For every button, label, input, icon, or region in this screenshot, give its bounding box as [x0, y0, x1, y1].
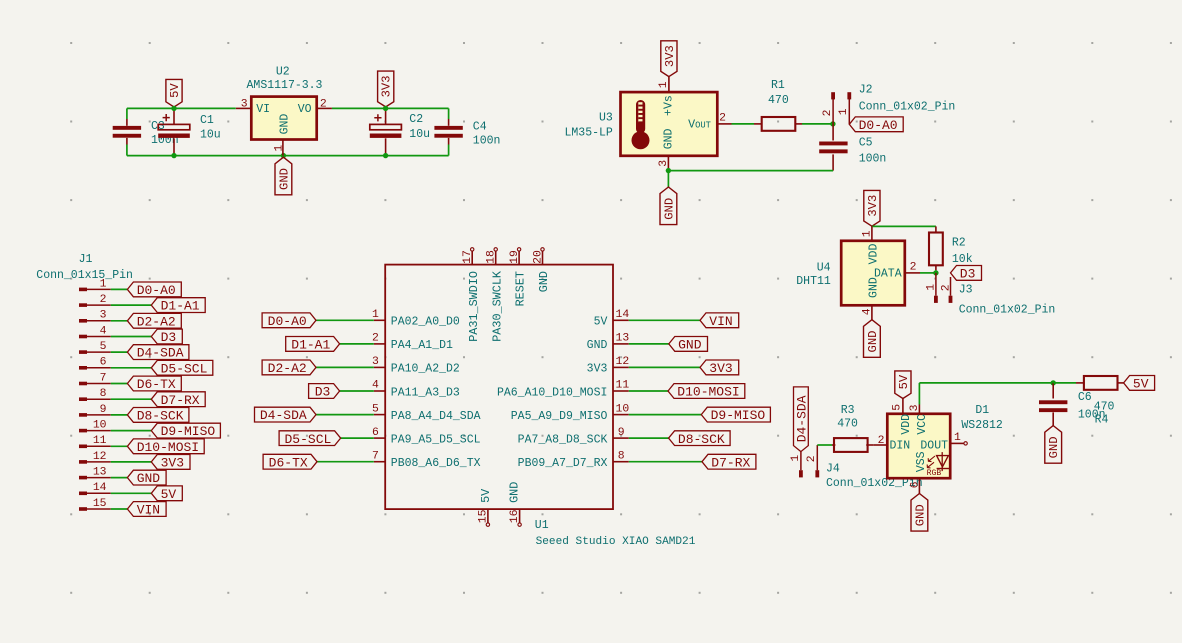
svg-text:GND: GND — [662, 128, 675, 149]
junction 3V3/C2 — [383, 106, 388, 111]
net label D9-MISO (U1 pin 10) — [701, 407, 770, 422]
svg-text:GND: GND — [587, 339, 608, 352]
net label D4-SDA (J4) — [794, 387, 809, 452]
svg-text:DHT11: DHT11 — [796, 275, 831, 288]
svg-text:PA02_A0_D0: PA02_A0_D0 — [391, 316, 460, 329]
svg-text:5: 5 — [892, 404, 904, 411]
wire C3 branch — [126, 108, 128, 119]
svg-text:5: 5 — [372, 403, 379, 415]
svg-text:Conn_01x02_Pin: Conn_01x02_Pin — [959, 304, 1056, 317]
svg-text:D1: D1 — [975, 404, 989, 417]
svg-text:3V3: 3V3 — [709, 361, 732, 376]
svg-text:2: 2 — [878, 435, 885, 447]
svg-text:10k: 10k — [952, 253, 973, 266]
net label D1-A1 (J1 pin 2) — [151, 298, 205, 313]
wire VCC rail to junction — [919, 382, 1053, 384]
resistor R3 — [832, 444, 835, 446]
svg-text:10u: 10u — [200, 128, 221, 141]
svg-text:R4: R4 — [1095, 413, 1109, 426]
svg-text:470: 470 — [768, 94, 789, 107]
svg-text:1: 1 — [100, 278, 107, 290]
svg-text:D5-SCL: D5-SCL — [284, 432, 331, 447]
svg-text:D10-MOSI: D10-MOSI — [137, 440, 199, 455]
net label D3 (U1 pin 4) — [309, 384, 340, 399]
svg-text:C2: C2 — [409, 113, 423, 126]
power 3V3 flag DHT11 — [864, 190, 880, 226]
net label D0-A0 (J2) — [849, 117, 903, 132]
svg-text:D8-SCK: D8-SCK — [678, 432, 725, 447]
pin 2 U3 Vout — [717, 123, 731, 125]
svg-text:D4-SDA: D4-SDA — [260, 408, 307, 423]
svg-text:3V3: 3V3 — [663, 45, 677, 67]
power 3V3 flag — [378, 71, 394, 107]
pins U1 right 8-14 — [613, 319, 629, 321]
svg-text:1: 1 — [658, 81, 670, 88]
ground GND flag WS2812 — [911, 494, 928, 532]
svg-text:1: 1 — [790, 455, 802, 462]
svg-text:GND: GND — [1047, 436, 1061, 458]
svg-text:2: 2 — [822, 109, 834, 116]
svg-text:4: 4 — [100, 325, 107, 337]
wire J4 to R3 — [817, 444, 832, 446]
svg-text:U2: U2 — [276, 65, 290, 78]
svg-text:PA11_A3_D3: PA11_A3_D3 — [391, 386, 460, 399]
junction U3 gnd — [666, 168, 671, 173]
pin 3 D1 VCC — [918, 405, 920, 414]
svg-text:20: 20 — [533, 250, 545, 264]
svg-text:100n: 100n — [473, 134, 501, 147]
wire VCC up — [918, 383, 920, 405]
svg-text:3: 3 — [658, 160, 670, 167]
svg-text:Seeed Studio XIAO SAMD21: Seeed Studio XIAO SAMD21 — [536, 536, 696, 548]
net label D7-RX (U1 pin 8) — [702, 454, 756, 469]
svg-text:1: 1 — [926, 284, 938, 291]
svg-text:5V: 5V — [479, 488, 493, 503]
svg-text:5: 5 — [100, 341, 107, 353]
svg-text:8: 8 — [618, 450, 625, 462]
svg-text:11: 11 — [93, 435, 107, 447]
svg-text:C6: C6 — [1078, 391, 1092, 404]
svg-text:3: 3 — [100, 310, 107, 322]
svg-text:2: 2 — [719, 113, 726, 125]
svg-text:R1: R1 — [771, 79, 785, 92]
svg-text:18: 18 — [486, 250, 498, 264]
svg-text:8: 8 — [100, 388, 107, 400]
svg-text:4: 4 — [861, 308, 873, 315]
svg-text:U1: U1 — [535, 519, 549, 532]
capacitor C3 — [126, 119, 128, 126]
svg-text:U3: U3 — [599, 111, 613, 124]
svg-text:J3: J3 — [959, 283, 973, 296]
svg-text:PA10_A2_D2: PA10_A2_D2 — [391, 363, 460, 376]
svg-text:D0-A0: D0-A0 — [268, 314, 307, 329]
svg-text:10: 10 — [616, 403, 630, 415]
svg-text:3: 3 — [372, 356, 379, 368]
svg-text:LM35-LP: LM35-LP — [564, 126, 612, 139]
net label 5V (J1 pin 14) — [151, 486, 182, 501]
svg-text:2: 2 — [941, 284, 953, 291]
svg-text:GND: GND — [508, 482, 522, 503]
svg-text:PA31_SWDIO: PA31_SWDIO — [467, 271, 481, 342]
power 3V3 flag LM35 — [661, 41, 677, 77]
svg-text:PA7_A8_D8_SCK: PA7_A8_D8_SCK — [518, 433, 608, 446]
net label D6-TX (J1 pin 7) — [127, 376, 181, 391]
svg-text:2: 2 — [806, 455, 818, 462]
svg-text:13: 13 — [616, 333, 630, 345]
svg-text:U4: U4 — [817, 261, 831, 274]
svg-text:J1: J1 — [79, 253, 93, 266]
svg-text:2: 2 — [100, 294, 107, 306]
ground GND flag U2 — [275, 157, 292, 195]
wire 3V3 to R2 — [872, 225, 936, 227]
svg-text:DIN: DIN — [890, 440, 911, 453]
svg-text:15: 15 — [478, 509, 490, 523]
svg-text:12: 12 — [616, 356, 630, 368]
pin 3 U2 VI — [236, 107, 251, 109]
svg-text:3: 3 — [241, 98, 248, 110]
svg-text:6: 6 — [909, 481, 921, 488]
svg-text:10u: 10u — [409, 128, 430, 141]
svg-text:J4: J4 — [826, 462, 840, 475]
svg-text:+Vs: +Vs — [662, 95, 675, 116]
junction C1 gnd — [171, 153, 176, 158]
svg-text:D0-A0: D0-A0 — [137, 283, 176, 298]
net label D1-A1 (U1 pin 2) — [286, 337, 340, 352]
svg-text:D1-A1: D1-A1 — [291, 338, 330, 353]
sensor U4 DHT11 — [841, 241, 905, 305]
ground GND flag DHT11 — [864, 320, 881, 358]
svg-text:6: 6 — [372, 427, 379, 439]
svg-text:GND: GND — [866, 331, 880, 353]
pins U1 left 1-7 — [374, 319, 385, 321]
svg-text:GND: GND — [279, 114, 292, 135]
net label D0-A0 (U1 pin 1) — [262, 313, 316, 328]
svg-text:D4-SDA: D4-SDA — [794, 395, 809, 442]
wire DATA to J3 — [920, 272, 936, 274]
svg-text:14: 14 — [93, 482, 107, 494]
svg-text:VO: VO — [298, 103, 312, 116]
net label VIN (J1 pin 15) — [127, 502, 166, 517]
svg-text:1: 1 — [274, 145, 286, 152]
svg-text:D10-MOSI: D10-MOSI — [677, 385, 739, 400]
svg-text:D3: D3 — [161, 330, 177, 345]
svg-text:PA30_SWCLK: PA30_SWCLK — [490, 270, 504, 342]
wire 5V top rail — [127, 107, 236, 109]
connector J2 — [831, 92, 835, 99]
svg-text:WS2812: WS2812 — [961, 419, 1003, 432]
svg-text:RGB: RGB — [927, 469, 942, 478]
resistor R1 — [754, 123, 762, 125]
svg-text:Conn_01x15_Pin: Conn_01x15_Pin — [36, 269, 133, 282]
net label D8-SCK (J1 pin 9) — [127, 408, 188, 423]
junction DATA/R2/J3 — [933, 270, 938, 275]
svg-text:D6-TX: D6-TX — [269, 455, 308, 470]
wire R1 to J2 — [802, 123, 833, 125]
svg-text:470: 470 — [837, 418, 858, 431]
svg-text:D7-RX: D7-RX — [161, 393, 200, 408]
svg-text:D0-A0: D0-A0 — [859, 118, 898, 133]
pin 2 U2 VO — [317, 107, 332, 109]
svg-text:D9-MISO: D9-MISO — [161, 424, 216, 439]
svg-text:R2: R2 — [952, 237, 966, 250]
junction C6/R4 — [1051, 380, 1056, 385]
regulator U2 — [251, 97, 316, 140]
svg-text:R3: R3 — [841, 404, 855, 417]
wire junction to R4 — [1053, 382, 1076, 384]
svg-text:10: 10 — [93, 420, 107, 432]
pin 2 U4 DATA — [905, 272, 920, 274]
svg-text:3V3: 3V3 — [161, 456, 184, 471]
net label D3 (J1 pin 4) — [151, 329, 182, 344]
svg-text:VI: VI — [256, 103, 270, 116]
net label VIN (U1 pin 14) — [700, 313, 739, 328]
pin 2 D1 DIN — [873, 444, 887, 446]
svg-text:VIN: VIN — [709, 314, 732, 329]
connector J3 — [935, 273, 937, 296]
svg-text:D2-A2: D2-A2 — [268, 361, 307, 376]
svg-text:5V: 5V — [161, 487, 177, 502]
net label D5-SCL (J1 pin 6) — [151, 360, 213, 375]
svg-text:VIN: VIN — [137, 503, 160, 518]
svg-text:2: 2 — [320, 98, 327, 110]
wire Vout to R1 — [732, 123, 755, 125]
capacitor C6 — [1052, 383, 1054, 399]
junction 5V/C1 — [171, 106, 176, 111]
svg-text:16: 16 — [509, 509, 521, 523]
svg-text:470: 470 — [1094, 400, 1115, 413]
svg-text:11: 11 — [616, 380, 630, 392]
svg-text:D5-SCL: D5-SCL — [161, 361, 208, 376]
svg-text:3V3: 3V3 — [380, 75, 394, 97]
LED D1 WS2812 — [887, 414, 950, 478]
svg-text:VDD: VDD — [900, 414, 913, 435]
svg-text:PB09_A7_D7_RX: PB09_A7_D7_RX — [518, 457, 608, 470]
pin 3 U3 GND — [667, 156, 669, 171]
svg-text:C5: C5 — [859, 136, 873, 149]
svg-text:PA8_A4_D4_SDA: PA8_A4_D4_SDA — [391, 410, 481, 423]
svg-text:9: 9 — [100, 404, 107, 416]
net label 5V (R4) — [1124, 376, 1155, 391]
svg-text:GND: GND — [137, 471, 161, 486]
pins U1 top 17-20 (unconnected) — [471, 251, 473, 264]
svg-text:D9-MISO: D9-MISO — [711, 408, 766, 423]
svg-text:7: 7 — [372, 450, 379, 462]
wire to GND flag LM35 — [667, 171, 669, 187]
svg-text:1: 1 — [861, 230, 873, 237]
net label D7-RX (J1 pin 8) — [151, 392, 205, 407]
svg-text:GND: GND — [662, 198, 676, 220]
svg-text:1: 1 — [838, 108, 850, 115]
svg-text:D8-SCK: D8-SCK — [137, 409, 184, 424]
wires U1 right — [629, 319, 700, 321]
capacitor C2 — [385, 108, 387, 124]
svg-text:3V3: 3V3 — [866, 195, 880, 217]
pin 4 U4 GND — [871, 305, 873, 319]
net label 3V3 (J1 pin 12) — [151, 455, 190, 470]
net label GND (U1 pin 13) — [669, 337, 708, 352]
svg-text:1: 1 — [372, 309, 379, 321]
svg-text:C1: C1 — [200, 114, 214, 127]
svg-text:C4: C4 — [473, 121, 487, 134]
pin 1 U3 +Vs — [668, 77, 670, 93]
svg-text:D3: D3 — [960, 267, 976, 282]
net label D3 (J3) — [951, 266, 982, 281]
svg-text:12: 12 — [93, 451, 107, 463]
svg-text:PA5_A9_D9_MISO: PA5_A9_D9_MISO — [511, 410, 608, 423]
svg-text:2: 2 — [910, 261, 917, 273]
wire 3V3 top rail — [332, 107, 449, 109]
net label D0-A0 (J1 pin 1) — [127, 282, 181, 297]
svg-text:5V: 5V — [594, 316, 608, 329]
svg-text:J2: J2 — [859, 84, 873, 97]
svg-text:PA4_A1_D1: PA4_A1_D1 — [391, 339, 453, 352]
svg-text:9: 9 — [618, 427, 625, 439]
net label D8-SCK (U1 pin 9) — [669, 431, 731, 446]
svg-text:3: 3 — [909, 404, 921, 411]
capacitor C5 — [832, 124, 834, 141]
junction C2 gnd — [383, 153, 388, 158]
svg-text:D4-SDA: D4-SDA — [137, 346, 184, 361]
svg-text:6: 6 — [100, 357, 107, 369]
net label D5-SCL (U1 pin 6) — [279, 431, 341, 446]
net label D4-SDA (U1 pin 5) — [255, 407, 317, 422]
svg-text:19: 19 — [509, 250, 521, 264]
capacitor C4 — [448, 119, 450, 126]
svg-text:15: 15 — [93, 498, 107, 510]
svg-text:14: 14 — [616, 309, 630, 321]
MCU U1 XIAO SAMD21 — [385, 265, 613, 510]
net label 3V3 (U1 pin 12) — [700, 360, 739, 375]
svg-text:2: 2 — [372, 333, 379, 345]
svg-text:5V: 5V — [168, 83, 182, 98]
svg-text:5V: 5V — [897, 374, 911, 389]
ground GND flag LM35 — [660, 187, 677, 225]
svg-text:4: 4 — [372, 380, 379, 392]
temp sensor U3 LM35 — [621, 92, 718, 156]
svg-text:VDD: VDD — [867, 244, 880, 265]
net label D9-MISO (J1 pin 10) — [151, 423, 220, 438]
svg-text:DOUT: DOUT — [920, 440, 948, 453]
svg-text:PA9_A5_D5_SCL: PA9_A5_D5_SCL — [391, 433, 481, 446]
pin 1 U2 GND — [282, 140, 284, 156]
power 5V flag — [166, 79, 182, 107]
svg-text:PA6_A10_D10_MOSI: PA6_A10_D10_MOSI — [497, 386, 607, 399]
svg-text:13: 13 — [93, 467, 107, 479]
svg-text:GND: GND — [537, 271, 551, 292]
wires U1 left — [316, 319, 374, 321]
net label D2-A2 (U1 pin 3) — [262, 360, 316, 375]
svg-text:7: 7 — [100, 372, 107, 384]
net label D10-MOSI (J1 pin 11) — [127, 439, 204, 454]
net label D4-SDA (J1 pin 5) — [127, 345, 188, 360]
connector J4 — [800, 452, 802, 471]
net label GND (J1 pin 13) — [127, 470, 166, 485]
pin 1 D1 DOUT (unconnected) — [950, 442, 963, 444]
svg-text:VCC: VCC — [916, 414, 929, 435]
svg-text:GND: GND — [913, 504, 927, 526]
junction U2 gnd — [281, 153, 286, 158]
svg-text:RESET: RESET — [514, 271, 528, 306]
pin 1 U4 VDD — [871, 226, 873, 240]
wire C5 to gnd — [668, 170, 833, 172]
net label D2-A2 (J1 pin 3) — [127, 313, 181, 328]
svg-text:D7-RX: D7-RX — [711, 455, 750, 470]
svg-text:VOUT: VOUT — [688, 118, 711, 132]
svg-text:D2-A2: D2-A2 — [137, 314, 176, 329]
svg-text:PB08_A6_D6_TX: PB08_A6_D6_TX — [391, 457, 481, 470]
wire C4 branch — [448, 108, 450, 119]
svg-text:GND: GND — [277, 168, 291, 190]
capacitor C1 — [173, 108, 175, 124]
svg-text:100n: 100n — [859, 152, 887, 165]
pin 6 D1 VSS — [918, 478, 920, 493]
power 5V flag WS2812 — [895, 371, 911, 399]
svg-text:D3: D3 — [315, 385, 331, 400]
svg-text:Conn_01x02_Pin: Conn_01x02_Pin — [859, 100, 956, 113]
svg-text:D6-TX: D6-TX — [137, 377, 176, 392]
svg-text:AMS1117-3.3: AMS1117-3.3 — [247, 79, 323, 92]
svg-text:5V: 5V — [1133, 377, 1149, 392]
svg-text:DATA: DATA — [874, 268, 902, 281]
svg-text:1: 1 — [954, 432, 961, 444]
svg-text:17: 17 — [462, 250, 474, 264]
resistor R2 — [935, 226, 937, 232]
wires J1 to labels — [111, 288, 128, 290]
net label D10-MOSI (U1 pin 11) — [668, 384, 745, 399]
junction R1/C5/J2 — [830, 121, 835, 126]
net label D6-TX (U1 pin 7) — [263, 454, 317, 469]
ground GND flag C6 — [1045, 426, 1062, 464]
resistor R4 — [1076, 382, 1085, 384]
svg-text:3V3: 3V3 — [587, 363, 608, 376]
svg-text:GND: GND — [678, 338, 702, 353]
pins U1 bottom 15-16 (unconnected) — [487, 509, 489, 523]
pin 5 D1 VDD — [902, 399, 904, 414]
wire GND bottom rail — [127, 155, 449, 157]
svg-text:D1-A1: D1-A1 — [161, 299, 200, 314]
